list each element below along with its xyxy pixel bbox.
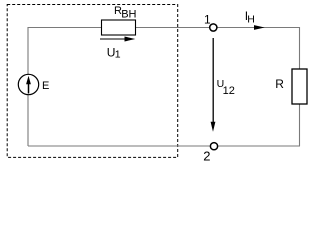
svg-text:H: H: [247, 13, 255, 25]
resistor R (load): [292, 69, 307, 104]
wire right vertical upper: [299, 27, 301, 69]
wire right vertical lower: [299, 104, 301, 146]
wire top-left segment: [28, 27, 102, 29]
wire top-middle segment: [136, 27, 210, 29]
dashed boundary box (source network): [7, 5, 178, 158]
wire bottom-left segment: [28, 145, 211, 147]
label U1: [107, 46, 121, 61]
wire bottom-right segment: [217, 145, 300, 147]
source E circle: [18, 74, 38, 94]
svg-text:BH: BH: [121, 9, 136, 21]
svg-text:E: E: [42, 80, 49, 92]
label RBH: [114, 5, 137, 21]
wire left vertical: [27, 27, 29, 146]
label IH: [245, 9, 255, 25]
label U12: [217, 78, 235, 97]
svg-text:1: 1: [204, 12, 211, 26]
node 2 terminal circle: [210, 143, 217, 150]
node 1 terminal circle: [210, 24, 217, 31]
wire top-right segment: [217, 27, 300, 29]
current arrow IH on top wire: [254, 25, 265, 30]
svg-text:1: 1: [115, 48, 121, 60]
resistor RBH (internal resistance): [102, 20, 136, 35]
source E arrow: [26, 76, 31, 94]
voltage arrow U12 between nodes 1 and 2: [211, 38, 216, 132]
voltage arrow U1 under RBH: [100, 37, 135, 42]
svg-text:R: R: [275, 77, 284, 91]
svg-text:2: 2: [203, 149, 210, 163]
svg-text:12: 12: [223, 85, 235, 97]
